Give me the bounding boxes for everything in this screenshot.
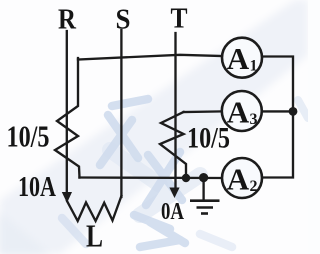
wire: CT2 top wire to A3 (184, 110, 222, 113)
arrow 0A on T line (169, 188, 179, 199)
arrow 10A on R line (62, 192, 72, 203)
wire: bottom secondary wire to A2 (80, 176, 223, 179)
watermark bottom-left wedge (0, 212, 50, 254)
svg-text:10A: 10A (18, 171, 56, 203)
ammeter A2 (222, 158, 262, 198)
ammeter A1 (222, 38, 262, 78)
junction dot ground (199, 173, 208, 182)
inductor L zigzag (67, 196, 121, 221)
main circuit ink (55, 30, 293, 221)
junction dot right bus at A3 (289, 107, 298, 116)
svg-text:L: L (86, 218, 103, 254)
junction dot CT2 bottom (182, 174, 190, 182)
svg-text:0A: 0A (161, 199, 185, 225)
wire: R phase conductor (66, 31, 68, 194)
current transformer CT1 (R phase) secondary zigzag (55, 58, 80, 178)
svg-text:S: S (116, 4, 131, 36)
svg-text:R: R (58, 4, 77, 36)
ground stub (202, 178, 204, 200)
svg-text:A: A (227, 94, 250, 129)
wire: top secondary wire to A1 (78, 55, 222, 60)
svg-text:A: A (227, 161, 250, 196)
svg-text:3: 3 (250, 111, 258, 128)
ammeter A3 (222, 91, 262, 131)
wire: T phase conductor (174, 33, 176, 189)
current transformer CT2 (T phase) secondary zigzag (160, 112, 186, 178)
svg-text:10/5: 10/5 (187, 122, 230, 155)
svg-text:10/5: 10/5 (7, 119, 50, 154)
svg-text:2: 2 (250, 178, 258, 195)
wire: right bus A1 to A2 (262, 57, 293, 178)
wire: A3 right to bus (262, 110, 293, 112)
svg-text:1: 1 (250, 58, 258, 75)
wire: S phase conductor (120, 30, 122, 197)
watermark glyph strokes center (62, 99, 308, 247)
ground symbol bars (190, 201, 220, 214)
svg-text:A: A (227, 41, 250, 76)
svg-text:T: T (171, 3, 188, 35)
